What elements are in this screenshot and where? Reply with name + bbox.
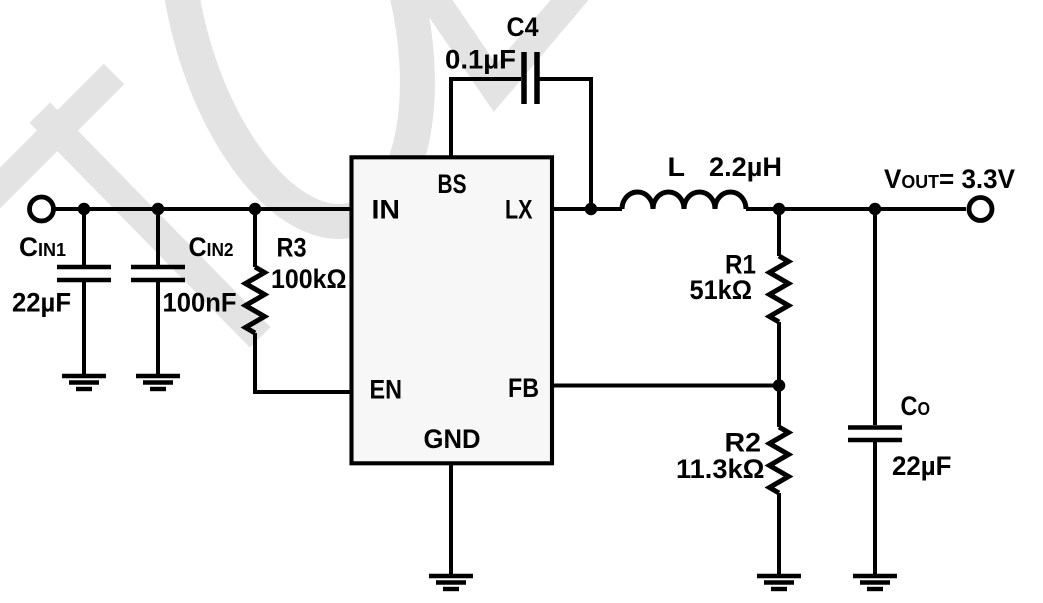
watermark [0,0,595,327]
node input-CIN2 [152,203,165,216]
capacitor CIN2 [131,265,185,270]
svg-text:100kΩ: 100kΩ [271,264,347,294]
ground R2 [757,576,801,589]
wire R1 bottom [777,322,781,386]
IC U1 [352,157,553,463]
wire Co top [873,209,877,425]
svg-text:BS: BS [438,169,467,199]
svg-text:FB: FB [508,373,539,403]
resistor R2 [770,427,789,493]
wire R2 bottom [777,493,781,574]
svg-text:CIN2: CIN2 [189,232,234,262]
svg-text:22µF: 22µF [892,451,952,481]
svg-text:LX: LX [505,195,533,225]
wire GND pin [449,463,453,574]
svg-text:EN: EN [370,375,403,405]
node VOUT-Co [869,203,882,216]
svg-text:2.2µH: 2.2µH [709,152,782,182]
resistor R1 [770,256,789,322]
capacitor CIN1 [57,265,111,270]
svg-text:100nF: 100nF [163,288,237,318]
svg-text:VOUT= 3.3V: VOUT= 3.3V [884,164,1015,194]
svg-text:22µF: 22µF [12,288,71,318]
input terminal [30,197,54,221]
wire R3 top [253,209,257,267]
node input-CIN1 [78,203,91,216]
output terminal [969,198,992,221]
ground CIN1 [62,376,106,389]
wire FB [551,384,779,388]
node FB-R1-R2 [773,379,786,392]
svg-text:IN: IN [372,195,401,225]
capacitor C4 [521,52,527,104]
svg-text:11.3kΩ: 11.3kΩ [676,454,765,484]
capacitor Co [848,425,902,430]
svg-text:51kΩ: 51kΩ [690,275,753,305]
wire R2 top [777,386,781,428]
wire CIN2 bottom [156,282,160,374]
wire C4 to LX node [537,79,591,209]
ground CIN2 [136,376,180,389]
wire output rail [746,207,966,211]
svg-text:C4: C4 [507,12,539,42]
svg-text:0.1µF: 0.1µF [445,45,516,75]
node input-R3 [249,203,262,216]
svg-text:R2: R2 [725,428,762,458]
svg-text:L: L [668,152,686,182]
wire Co bottom [873,442,877,574]
wire BS to C4 [451,79,521,157]
svg-text:R3: R3 [277,233,307,263]
node VOUT-R1 [773,203,786,216]
svg-text:CIN1: CIN1 [19,232,66,262]
node LX-C4 [585,203,598,216]
wire CIN1 top [82,209,86,265]
svg-text:CO: CO [901,391,931,421]
wire R3 to EN [255,333,351,392]
wire CIN2 top [156,209,160,265]
wire R1 top [777,209,781,256]
ground Co [853,576,897,589]
ground GND pin [429,576,473,589]
wire LX [551,207,622,211]
inductor L [622,192,746,209]
resistor R3 [246,267,265,333]
wire CIN1 bottom [82,282,86,374]
svg-text:GND: GND [424,424,481,454]
wire input rail [55,207,351,211]
